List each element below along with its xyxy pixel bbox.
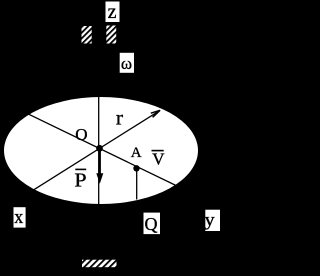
wire z-axis vertical line bbox=[98, 95, 100, 208]
arrowhead of r bbox=[151, 110, 160, 117]
overbar of V bbox=[152, 150, 164, 152]
svg-text:ω: ω bbox=[121, 54, 132, 73]
svg-text:x: x bbox=[14, 207, 23, 228]
svg-text:z: z bbox=[108, 1, 117, 23]
label Q box bbox=[144, 213, 161, 235]
label y box bbox=[205, 210, 220, 231]
label x box bbox=[14, 207, 26, 227]
svg-text:Q: Q bbox=[145, 214, 158, 234]
label z box bbox=[106, 2, 120, 23]
bearing hatch right bbox=[106, 26, 116, 44]
wire r diagonal line bbox=[22, 110, 160, 197]
node O center dot bbox=[96, 145, 103, 152]
vector P arrowhead bbox=[96, 173, 103, 184]
wire diagonal through A bbox=[16, 108, 176, 185]
label omega box bbox=[120, 53, 134, 73]
vector P arrow shaft bbox=[99, 149, 101, 177]
svg-text:V: V bbox=[152, 150, 165, 169]
disk (ellipse) bbox=[4, 97, 198, 204]
ground hatch bottom bbox=[82, 260, 117, 268]
wire vertical line from A bbox=[136, 168, 138, 200]
svg-text:A: A bbox=[131, 145, 142, 161]
svg-text:O: O bbox=[75, 125, 87, 144]
svg-text:r: r bbox=[116, 108, 124, 130]
overbar of P bbox=[75, 169, 86, 171]
svg-text:P: P bbox=[74, 170, 86, 192]
bearing hatch left bbox=[82, 26, 92, 44]
svg-text:y: y bbox=[205, 209, 215, 229]
node A dot bbox=[133, 165, 139, 171]
